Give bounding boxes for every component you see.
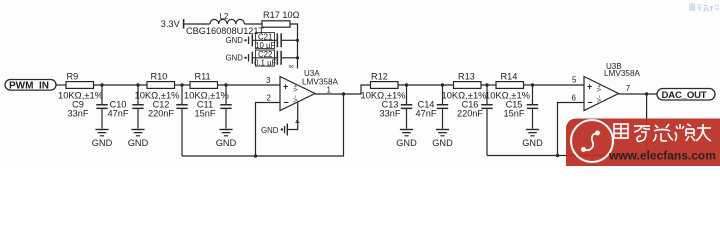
capacitor C21 10uF <box>255 33 282 50</box>
wire R9 to R10 <box>94 84 148 86</box>
wire U3B output to DAC_OUT <box>619 93 657 95</box>
pin 4 stub U3A <box>288 102 301 129</box>
svg-text:+: + <box>283 81 288 91</box>
node C14 <box>441 83 444 86</box>
svg-text:GND: GND <box>226 54 244 63</box>
svg-text:V−: V− <box>597 95 603 102</box>
ground (C21) <box>226 34 254 46</box>
resistor R14 <box>485 72 530 101</box>
svg-text:R9: R9 <box>67 72 79 82</box>
capacitor C14 47nF <box>416 85 449 129</box>
svg-text:+: + <box>587 81 592 91</box>
ground under C14 <box>432 129 453 148</box>
ground (C22) <box>226 52 254 64</box>
svg-text:LMV358A: LMV358A <box>604 69 640 78</box>
capacitor C12 220nF <box>148 85 188 156</box>
ground (U3A pin4) <box>261 124 288 136</box>
svg-text:3.3V: 3.3V <box>161 19 181 29</box>
node C10 <box>136 83 139 86</box>
svg-text:1: 1 <box>327 85 332 94</box>
power net 3.3V label <box>161 19 185 29</box>
node V+ bus / C21 junction <box>296 39 299 42</box>
svg-text:V+: V+ <box>597 85 603 92</box>
node pin6/bottom line <box>556 154 559 157</box>
svg-text:7: 7 <box>626 84 631 93</box>
wire C22 to bus <box>282 57 298 59</box>
resistor R10 <box>135 72 180 101</box>
svg-text:GND: GND <box>432 138 453 148</box>
capacitor C16 220nF <box>457 85 493 156</box>
capacitor C13 33nF <box>380 85 413 129</box>
svg-text:10 µF: 10 µF <box>255 41 275 50</box>
svg-text:R10: R10 <box>151 72 168 82</box>
svg-text:220nF: 220nF <box>148 109 174 119</box>
svg-text:5: 5 <box>572 75 577 84</box>
svg-text:33nF: 33nF <box>380 109 401 119</box>
node C13 <box>405 83 408 86</box>
inductor L2 <box>186 12 265 36</box>
svg-text:−: − <box>587 97 592 107</box>
svg-text:15nF: 15nF <box>195 109 216 119</box>
svg-text:33nF: 33nF <box>68 109 89 119</box>
wire R11 to U3A pin3 <box>218 84 281 86</box>
node U3B output <box>645 92 648 95</box>
svg-text:L2: L2 <box>220 12 229 21</box>
node pin2/bottom line <box>254 154 257 157</box>
node C16 <box>485 83 488 86</box>
resistor R9 <box>58 72 103 101</box>
svg-text:V+: V+ <box>294 85 300 92</box>
faint blue watermark top-right <box>690 4 720 12</box>
svg-text:GND: GND <box>92 138 113 148</box>
svg-text:47nF: 47nF <box>416 109 437 119</box>
ground under C11 <box>216 129 237 148</box>
svg-text:GND: GND <box>261 126 279 135</box>
ground under C13 <box>396 129 417 148</box>
ground under C9 <box>92 129 113 148</box>
capacitor C22 0.1uF <box>254 50 282 67</box>
ground under C15 <box>522 129 543 148</box>
wire R12 to R13 <box>398 84 454 86</box>
svg-text:6: 6 <box>572 93 577 102</box>
svg-text:47nF: 47nF <box>108 109 129 119</box>
node R9/C9 <box>100 83 103 86</box>
capacitor C9 33nF <box>68 85 108 129</box>
wire stage1 feedback bottom <box>182 94 344 156</box>
wire stage2 feedback bottom <box>487 94 647 156</box>
svg-text:V−: V− <box>294 95 300 102</box>
svg-text:GND: GND <box>522 138 543 148</box>
svg-text:GND: GND <box>396 138 417 148</box>
wire R13 to R14 <box>481 84 496 86</box>
node C12 <box>180 83 183 86</box>
watermark badge www.elecfans.com <box>566 119 720 167</box>
svg-text:LMV358A: LMV358A <box>302 77 338 86</box>
svg-text:R13: R13 <box>458 72 475 82</box>
resistor R13 <box>442 72 487 101</box>
resistor R17 10Ω <box>262 10 300 27</box>
node V+ bus / C22 junction <box>296 56 299 59</box>
svg-text:0.1 µF: 0.1 µF <box>254 58 276 67</box>
wire R10 to R11 <box>175 84 191 86</box>
wire R14 to U3B pin5 <box>524 84 585 86</box>
wire U3A pin2 feedback <box>256 103 281 157</box>
wire 3.3V to L2 <box>184 23 210 25</box>
capacitor C11 15nF <box>195 85 232 129</box>
resistor R11 <box>184 72 229 101</box>
svg-text:GND: GND <box>226 36 244 45</box>
svg-text:www.elecfans.com: www.elecfans.com <box>608 149 716 163</box>
svg-text:DAC_OUT: DAC_OUT <box>662 90 707 101</box>
wire L2 to R17 <box>244 23 262 25</box>
op-amp U3A <box>280 69 338 111</box>
node U3A output <box>342 92 345 95</box>
svg-text:PWM_IN: PWM_IN <box>9 81 49 92</box>
capacitor C10 47nF <box>108 85 144 129</box>
svg-text:R17 10Ω: R17 10Ω <box>263 10 300 20</box>
capacitor C15 15nF <box>504 85 539 129</box>
wire GND to C21 <box>253 39 277 41</box>
wire U3B pin6 feedback <box>558 103 585 156</box>
svg-text:R14: R14 <box>501 72 518 82</box>
port DAC_OUT <box>657 89 715 101</box>
svg-text:∞: ∞ <box>289 62 294 71</box>
svg-text:GND: GND <box>128 138 149 148</box>
svg-text:R11: R11 <box>195 72 211 82</box>
node C11 <box>224 83 227 86</box>
svg-text:−: − <box>283 97 288 107</box>
svg-text:220nF: 220nF <box>457 109 483 119</box>
wire C21 to bus <box>282 39 298 41</box>
op-amp U3B <box>584 62 640 111</box>
wire PWM_IN to R9 <box>56 84 66 86</box>
svg-text:3: 3 <box>266 76 271 85</box>
resistor R12 <box>361 72 406 101</box>
wire GND to C22 <box>253 57 277 59</box>
svg-text:GND: GND <box>216 138 237 148</box>
svg-text:2: 2 <box>267 93 272 102</box>
svg-text:R12: R12 <box>371 72 388 82</box>
svg-text:15nF: 15nF <box>504 109 525 119</box>
node C15 <box>531 83 534 86</box>
port PWM_IN <box>5 80 56 92</box>
svg-text:4: 4 <box>293 120 300 124</box>
ground under C10 <box>128 129 149 148</box>
wire U3A output to R12 <box>315 85 371 94</box>
wire R17 to V+ bus <box>290 24 298 69</box>
